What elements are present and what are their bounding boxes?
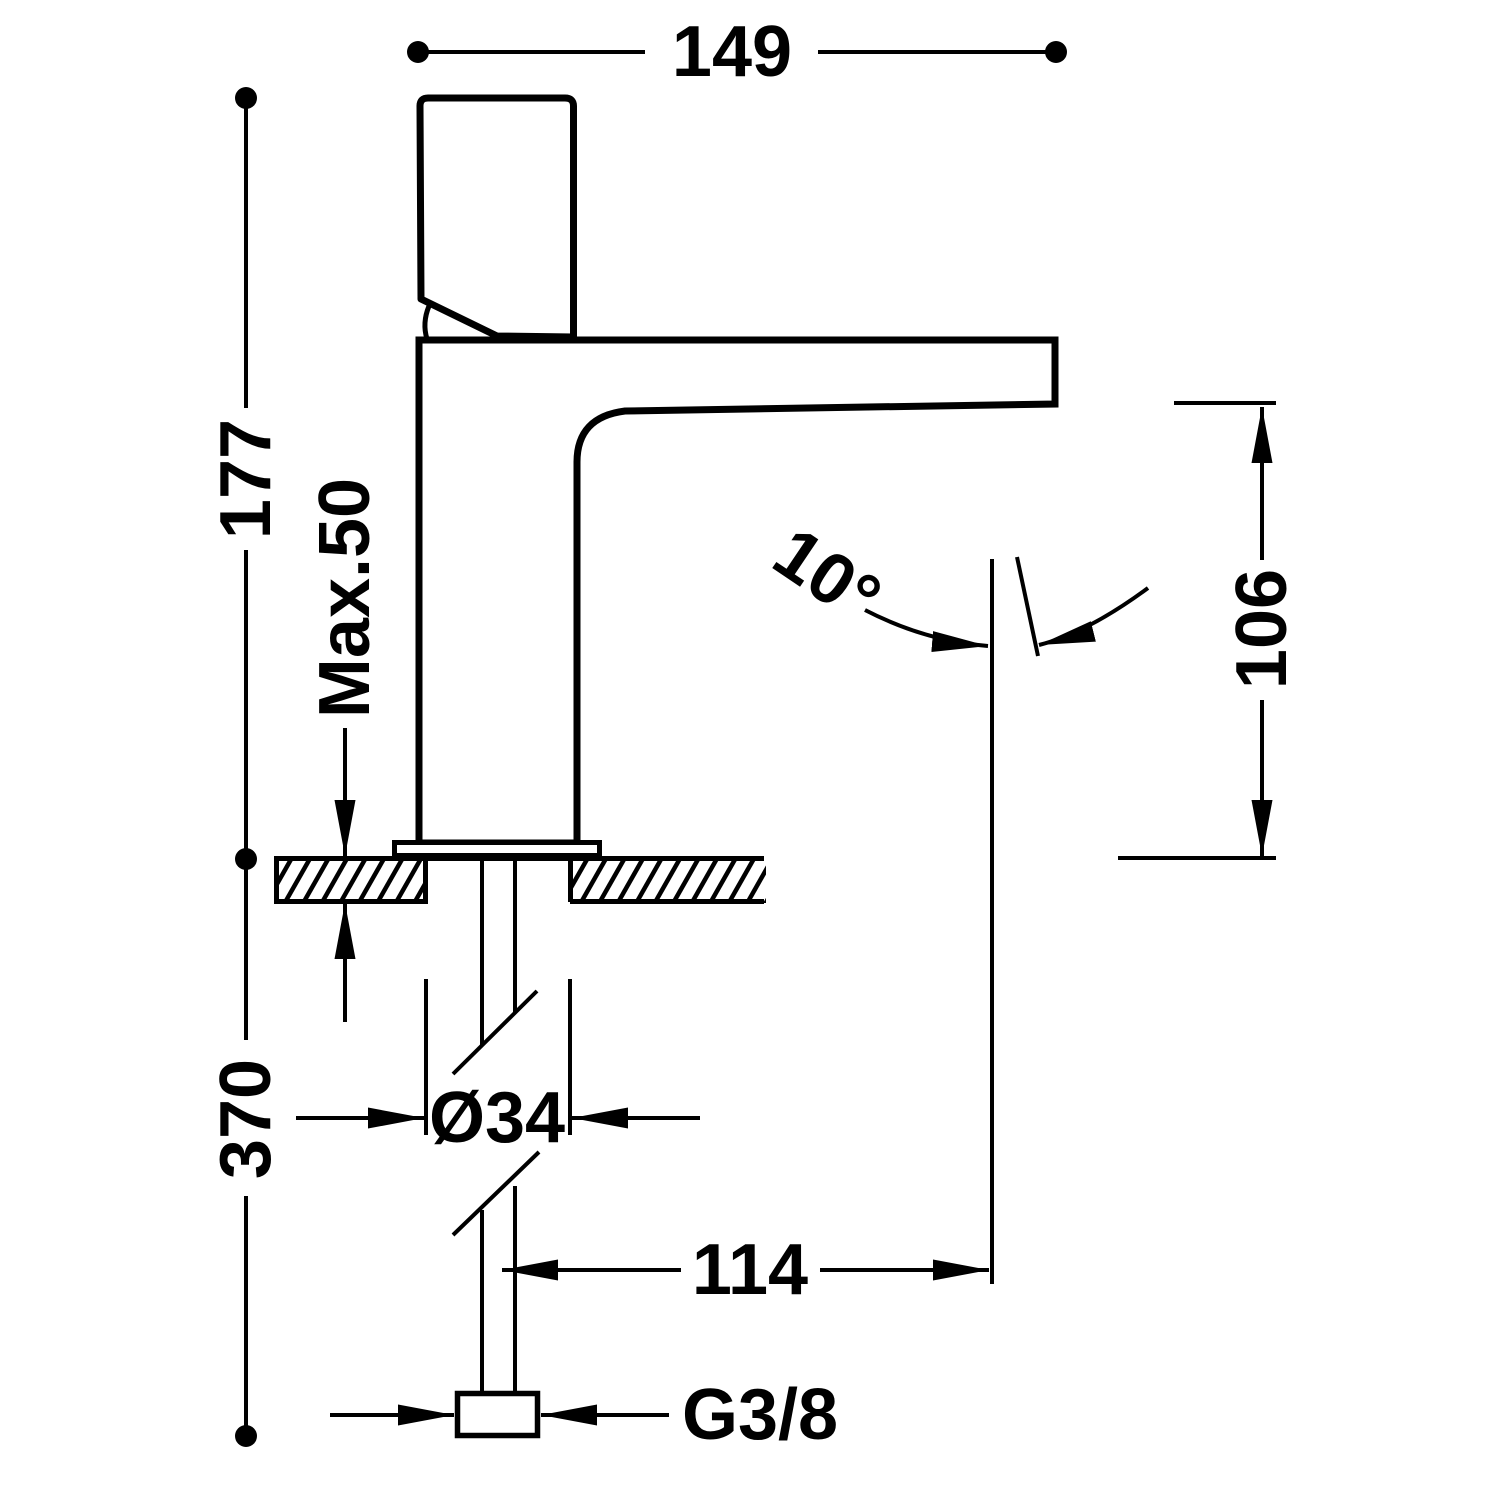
countertop left end edge — [274, 858, 279, 902]
svg-text:Ø34: Ø34 — [429, 1078, 565, 1158]
svg-text:370: 370 — [206, 1059, 286, 1179]
countertop top surface line — [274, 856, 764, 861]
handle pivot arc — [425, 306, 429, 339]
wire: dim 106 lower arrow (down) — [1260, 700, 1264, 856]
wire: G3/8 left arrow — [330, 1413, 454, 1417]
supply pipe upper left line — [480, 861, 484, 1046]
wire: dimension 149 line left segment — [424, 50, 1050, 54]
angle arc left arrow — [865, 610, 988, 646]
wire: dim 106 upper arrow (up) — [1260, 407, 1264, 560]
countertop hole left edge — [423, 858, 428, 902]
wire: dim 114 left arrow — [502, 1268, 681, 1272]
G3/8 connector block — [458, 1394, 538, 1436]
svg-text:149: 149 — [672, 12, 792, 92]
node: dim 149 right dot — [1045, 41, 1067, 63]
node: dim 370 bottom dot — [235, 1425, 257, 1447]
water stream tilted reference line — [1017, 557, 1038, 656]
handle lever — [420, 98, 574, 337]
pipe break slash upper — [453, 991, 537, 1074]
svg-text:10°: 10° — [759, 512, 894, 639]
node: dim 149 left dot — [407, 41, 429, 63]
countertop hatching right block — [542, 855, 793, 906]
wire: Max.50 upper arrow (down) — [343, 728, 347, 856]
svg-text:114: 114 — [692, 1230, 808, 1310]
countertop hole right edge — [568, 858, 573, 902]
countertop right block bottom line — [570, 899, 764, 904]
node: dim 177/370 middle dot — [235, 848, 257, 870]
wire: dim Ø34 right arrow — [572, 1116, 700, 1120]
wire: dim 114 right arrow — [820, 1268, 989, 1272]
escutcheon base plate — [395, 843, 600, 856]
countertop left block bottom line — [274, 899, 428, 904]
node: dim 177 top dot — [235, 87, 257, 109]
faucet body and spout outline — [419, 340, 1055, 843]
pipe break slash lower — [453, 1152, 539, 1235]
svg-text:106: 106 — [1222, 569, 1302, 689]
countertop hatching left block — [246, 855, 460, 906]
svg-text:Max.50: Max.50 — [305, 478, 385, 718]
wire: dimension 177/370 vertical line — [244, 100, 248, 1432]
angle arc right arrow — [1039, 588, 1148, 645]
wire: dim Ø34 left extension line — [424, 979, 428, 1135]
svg-text:177: 177 — [206, 419, 286, 539]
svg-text:G3/8: G3/8 — [682, 1375, 838, 1455]
wire: G3/8 right arrow — [541, 1413, 669, 1417]
water stream vertical reference line — [990, 559, 994, 1284]
supply pipe lower left line — [480, 1210, 484, 1391]
supply pipe lower right line — [513, 1186, 517, 1391]
wire: dim 106 bottom extension line — [1118, 856, 1276, 860]
wire: dim Ø34 right extension line — [568, 979, 572, 1135]
supply pipe upper right line — [513, 861, 517, 1012]
wire: dim 106 top extension line — [1174, 401, 1276, 405]
wire: Max.50 lower arrow (up) — [343, 903, 347, 1022]
wire: dim Ø34 left arrow — [296, 1116, 424, 1120]
